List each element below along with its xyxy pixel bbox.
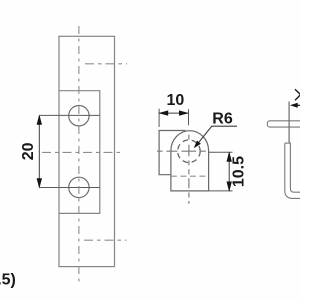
front view outer plate rectangle [59,36,115,266]
front view inner plate rectangle [59,91,100,214]
svg-text:20: 20 [20,142,37,160]
hidden dashed hole circle in top view [178,140,201,163]
vertical dashed centerline of front view [78,26,80,282]
horizontal dashed line upper (front view) [85,63,127,65]
dimension 10.5 text [231,156,248,187]
crosshair vertical centerline of hole [188,135,190,204]
side view top bar [267,121,302,127]
extension line through hole H1 [40,114,100,116]
dimension 20 line with arrows [37,114,42,188]
dimension 10.5 extension lines [209,152,233,191]
corner text (cut off) [0,271,16,288]
svg-text:R6: R6 [212,110,233,127]
extension line through hole H2 [40,187,100,189]
dimension 20 text [20,142,37,160]
horizontal dashed centerline middle (front view) [42,151,123,153]
svg-text:.5): .5) [0,271,16,288]
hole H1 circle [69,106,89,126]
dimension 10 extension lines [159,109,188,127]
horizontal dashed line lower (front view) [84,239,127,241]
side view small dimension arrow [290,103,301,108]
dimension 10 line with arrows [158,110,188,115]
crosshair horizontal centerline of hole [157,150,206,152]
hidden dashed edge inside dome [171,175,207,177]
top view dome outline with R6 arc [171,131,209,191]
side view chevron mark (cut off) [295,89,301,100]
dimension 10 text [167,92,185,109]
top view flange outline [159,131,185,175]
hole H2 circle [69,177,89,197]
side view J-strip outline [285,143,302,198]
svg-text:10.5: 10.5 [231,156,248,187]
svg-text:10: 10 [167,92,185,109]
side view vertical extension line [288,102,290,144]
dimension 10.5 line with arrows [227,151,232,192]
R6 leader line and arrowhead [194,126,237,148]
R6 text [212,110,233,127]
